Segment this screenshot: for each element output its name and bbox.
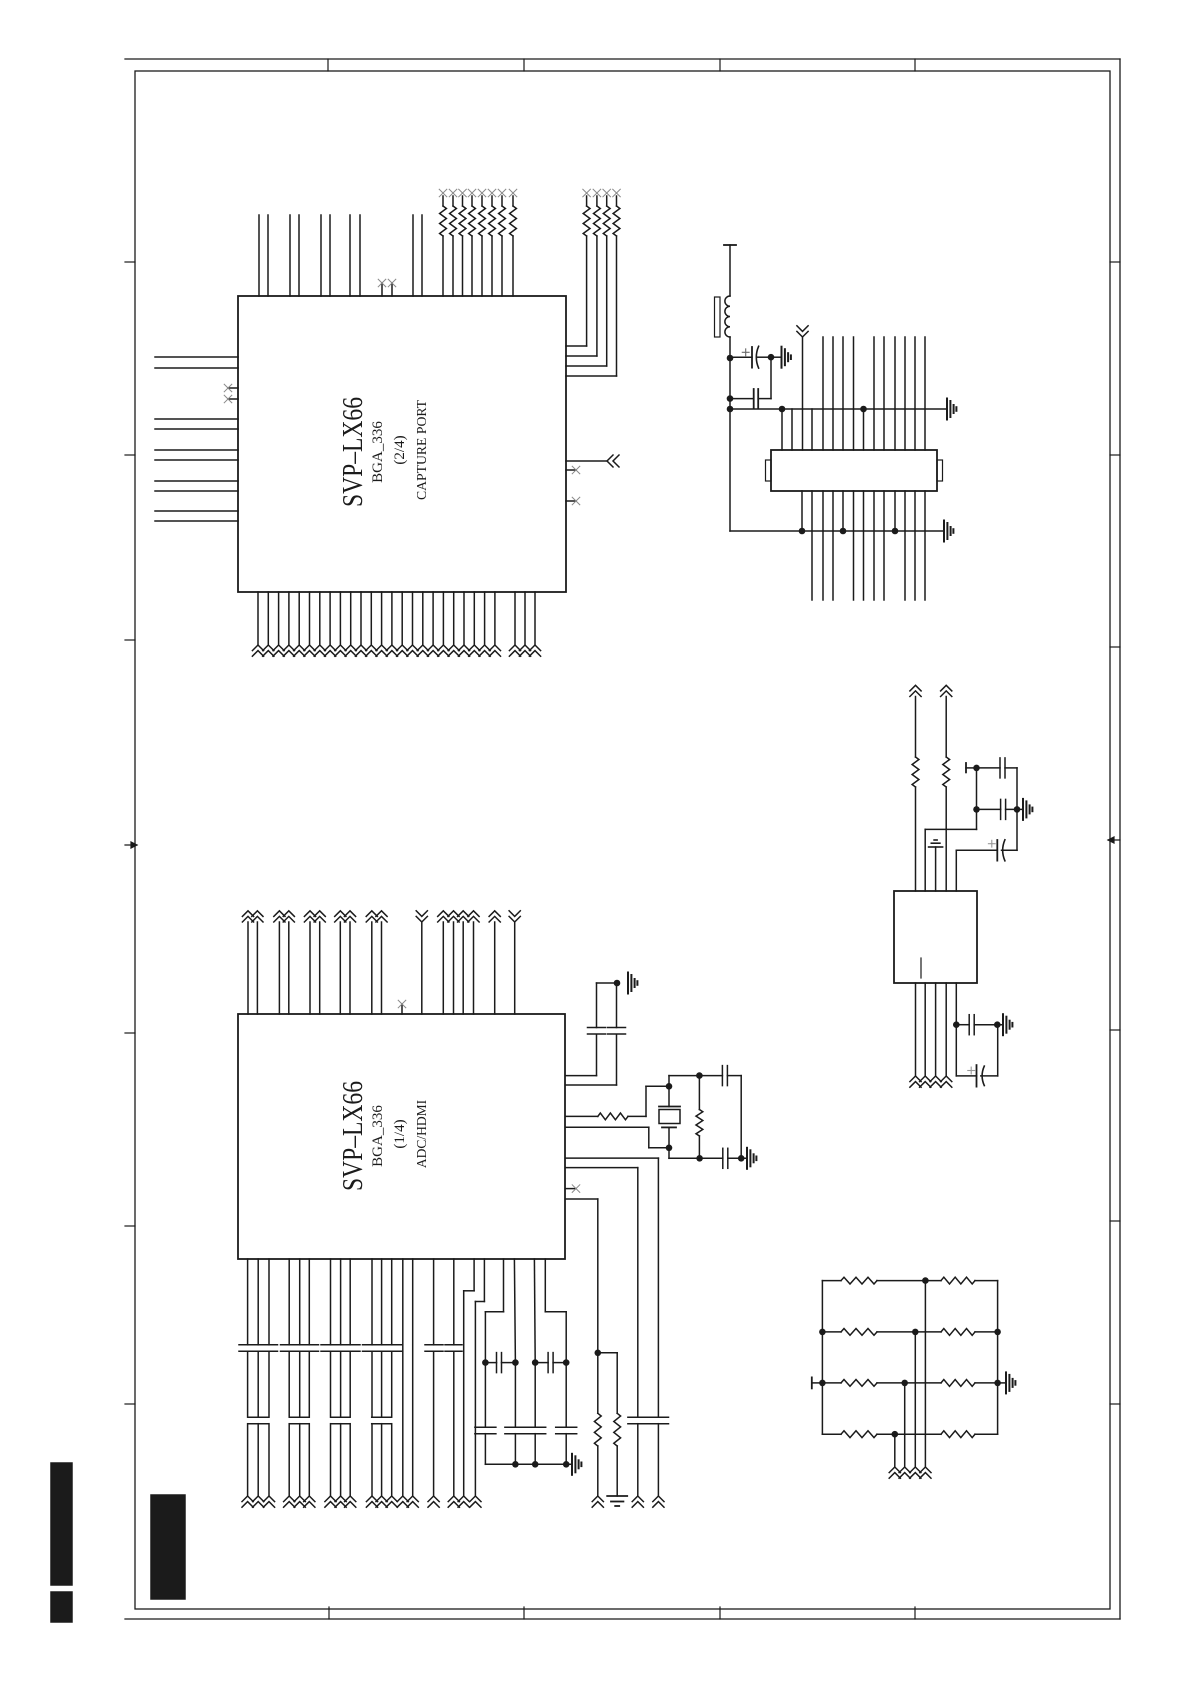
- wire branch to R16: [598, 1352, 617, 1354]
- no-connect X marks above R1-R8: [439, 189, 447, 197]
- wire U2 pin to C4: [566, 1084, 617, 1086]
- junction row4: [892, 1431, 899, 1438]
- resistor R20: [925, 1280, 941, 1282]
- wire bundle U2 top pins: [248, 922, 515, 1014]
- wire U2 pin to C3: [566, 1075, 597, 1077]
- wire col I with jog: [544, 1259, 546, 1312]
- resistor R14 parallel to crystal: [698, 1076, 700, 1110]
- ground G6: [1022, 799, 1024, 820]
- wire R16 to earth: [616, 1446, 618, 1496]
- wire C1/C2 common: [770, 357, 772, 398]
- svg-text:BGA_336: BGA_336: [370, 421, 386, 483]
- wire C4 top to ground node: [616, 983, 618, 1028]
- ground G1b: [781, 347, 783, 368]
- wire col G: [533, 1259, 536, 1363]
- junction ground node: [614, 980, 621, 987]
- junction dots lower bus: [799, 528, 806, 535]
- resistor array R1-R8 on U1 top: [443, 196, 513, 296]
- off-page arrow down into connector net: [797, 331, 808, 337]
- junction C1 right: [768, 354, 775, 361]
- resistor R19: [822, 1280, 841, 1282]
- wire col E with jog: [503, 1259, 505, 1312]
- wire C5 to right leg: [727, 1075, 741, 1077]
- svg-text:CAPTURE PORT: CAPTURE PORT: [414, 399, 429, 500]
- svg-text:(2/4): (2/4): [392, 435, 408, 464]
- ladder left rail: [821, 1281, 823, 1435]
- ground G2: [943, 521, 945, 542]
- wire R15 to off-page: [597, 1446, 599, 1496]
- wire U1 left bus stubs: [155, 357, 238, 521]
- off-page arrows below U3: [910, 1076, 921, 1082]
- resistor R23: [819, 1380, 826, 1387]
- no-connect on U2 top: [401, 1004, 403, 1014]
- ladder right rail: [997, 1281, 999, 1435]
- wire U2 pin routed down col 658: [566, 1157, 658, 1159]
- capacitor C24: [999, 758, 1001, 778]
- off-page arrows above U2 pointing up: [242, 916, 253, 922]
- capacitor C20: [475, 1426, 496, 1428]
- node B bus: [973, 806, 980, 813]
- capacitor C2: [727, 395, 734, 402]
- no-connect stubs U1 left: [228, 387, 238, 389]
- resistor R18: [943, 757, 950, 787]
- off-page arrow left-pointing: [607, 455, 613, 467]
- svg-text:(1/4): (1/4): [392, 1119, 408, 1148]
- wire bundle U1 bottom pins to off-page: [258, 592, 535, 645]
- capacitor C27: [968, 1015, 970, 1035]
- capacitor C8 wide: [649, 1416, 669, 1418]
- resistor R17: [912, 757, 919, 787]
- CN1 left tab: [766, 460, 772, 481]
- svg-text:BGA_336: BGA_336: [370, 1105, 386, 1167]
- centre marker arrow left: [125, 842, 137, 848]
- wire C6 to ground node: [728, 1157, 747, 1159]
- svg-text:SVP–LX66: SVP–LX66: [338, 1081, 369, 1191]
- border zone ticks right: [1110, 262, 1120, 1404]
- capacitor C7 wide: [628, 1416, 649, 1418]
- ground bus lower: [730, 530, 944, 532]
- wire rail left of connector: [729, 337, 731, 531]
- wire C26 to U3 pin: [955, 850, 957, 891]
- wire cap C26 branch: [1016, 809, 1018, 850]
- sheet outer border: [125, 59, 1120, 1619]
- wire C1 to ground: [771, 356, 782, 358]
- capacitor C5: [721, 1066, 723, 1086]
- resistor R26: [895, 1433, 941, 1435]
- off-page arrows feeding U3: [910, 691, 921, 697]
- black rectangle logo area: [151, 1495, 185, 1599]
- off-page arrows below C7 C8: [632, 1496, 643, 1502]
- junction row3: [901, 1380, 908, 1387]
- capacitor C3: [588, 1027, 606, 1029]
- node no-connects on U1 top: [381, 283, 383, 296]
- resistor R21: [819, 1329, 826, 1336]
- ground G3: [627, 973, 629, 994]
- junction row2: [912, 1329, 919, 1336]
- capacitor C21: [505, 1426, 526, 1428]
- ground bus upper: [727, 406, 734, 413]
- ground G1: [946, 399, 948, 420]
- centre marker arrow right: [1108, 837, 1120, 843]
- wire U3 input right: [945, 697, 947, 758]
- junction rail-C1: [727, 355, 734, 362]
- capacitor C4: [608, 1027, 626, 1029]
- capacitor C18: [496, 1353, 498, 1373]
- black bar margin small: [51, 1592, 72, 1622]
- junction R14 top: [696, 1072, 703, 1079]
- resistor R22: [915, 1331, 941, 1333]
- wire C3 top to ground node: [596, 983, 598, 1028]
- wire U2 pin to crystal bottom: [566, 1126, 649, 1128]
- ground G8: [998, 1382, 1006, 1384]
- border zone ticks bottom: [329, 1607, 915, 1619]
- capacitor C26 polarized: [1002, 849, 1018, 851]
- terminal bar row3: [811, 1377, 813, 1388]
- ground G4: [746, 1148, 748, 1169]
- junction R14 bottom: [696, 1155, 703, 1162]
- power terminal bar: [724, 244, 736, 246]
- op-amp U1 body SVP-LX66 (2/4) CAPTURE PORT block: [238, 296, 566, 592]
- junction C27 right: [994, 1021, 1001, 1028]
- wires to lower cap row: [484, 1363, 486, 1428]
- junction bus-pin dots: [779, 406, 786, 413]
- wire node B down to U3 pin: [925, 828, 976, 830]
- resistor R15: [594, 1413, 601, 1446]
- capacitor C22: [525, 1426, 546, 1428]
- regulator U3 body: [894, 891, 977, 983]
- wire col F: [514, 1259, 515, 1363]
- border zone ticks top: [328, 59, 915, 71]
- capacitor row C13-C16: [249, 1416, 269, 1418]
- inductor L1: [725, 296, 730, 337]
- no-connect stubs U1 right: [566, 469, 576, 471]
- junction C6 ground node: [738, 1155, 745, 1162]
- junction dots cap pair row: [482, 1359, 489, 1366]
- wire U2 pin routed down col 638: [566, 1167, 638, 1169]
- resistor R24: [905, 1382, 941, 1384]
- capacitor C6: [722, 1148, 724, 1168]
- wire U3 input left: [915, 697, 917, 758]
- capacitor C23: [556, 1426, 577, 1428]
- wire U1 top pin pairs: [259, 215, 422, 296]
- off-page arrows cols A-D: [428, 1496, 439, 1502]
- wire C24 to corner: [1005, 767, 1017, 769]
- earth above U3: [935, 847, 937, 891]
- resistor R16: [614, 1413, 621, 1446]
- resistor R13: [598, 1113, 628, 1120]
- wire from terminal to inductor: [729, 245, 731, 296]
- wire crystal top to C5: [668, 1076, 670, 1087]
- wire col A: [433, 1259, 435, 1345]
- wire U2 pin to R13: [566, 1115, 598, 1117]
- capacitor row C9-C12 (wide plates): [239, 1344, 278, 1346]
- off-page arrows above U2 pointing down: [416, 916, 427, 922]
- black bar margin tall: [51, 1463, 72, 1585]
- wires below C7 C8 to off-page: [637, 1424, 639, 1496]
- wire crystal bottom bus: [668, 1148, 670, 1159]
- capacitor C25: [1000, 799, 1002, 819]
- wire U1 right off-page: [566, 460, 607, 462]
- junction row1: [922, 1277, 929, 1284]
- op-amp U2 body SVP-LX66 (1/4) ADC/HDMI block: [238, 1014, 565, 1259]
- junction C27 left: [953, 1021, 960, 1028]
- svg-text:ADC/HDMI: ADC/HDMI: [414, 1099, 429, 1168]
- junction crystal bottom: [666, 1145, 673, 1152]
- off-page arrows below U1: [252, 645, 263, 651]
- ground G5: [571, 1454, 573, 1475]
- off-page arrows below U2 groups: [242, 1496, 253, 1502]
- ground earth E1: [607, 1495, 627, 1497]
- wire node A to node B: [976, 768, 978, 830]
- wire U2 pin routed down col 598: [566, 1198, 598, 1200]
- wire col C with jog: [473, 1259, 475, 1291]
- U3 pin1 mark: [920, 958, 922, 978]
- junction crystal top: [666, 1083, 673, 1090]
- capacitor C1 polarized: [730, 356, 752, 358]
- CN1 right tab: [937, 460, 943, 481]
- resistor R25: [822, 1433, 841, 1435]
- junction col598 branch: [595, 1350, 602, 1357]
- wire R13 to crystal top node: [628, 1115, 646, 1117]
- off-page arrows ladder taps: [889, 1467, 900, 1473]
- ferrite core bar beside L1: [715, 297, 721, 337]
- wire col D with jog: [483, 1259, 485, 1302]
- ground G7: [1002, 1014, 1004, 1035]
- off-page arrow R15: [592, 1496, 603, 1502]
- wire bundle below CN1: [802, 491, 925, 600]
- capacitor C19: [547, 1353, 549, 1373]
- wire bundle U3 bottom: [916, 983, 957, 1076]
- capacitor C28 polarized: [976, 1065, 978, 1087]
- connector CN1 body: [771, 450, 937, 491]
- resistor array R9-R12 upper right of U1: [566, 196, 617, 376]
- wire bundle U2 bottom groups: [248, 1259, 413, 1496]
- terminal bar node A: [965, 763, 967, 772]
- no-connect stub U2 right: [566, 1188, 576, 1190]
- no-connect X marks above R9-R12: [583, 189, 591, 197]
- svg-text:SVP–LX66: SVP–LX66: [338, 397, 369, 507]
- wire loop to C28: [955, 1025, 957, 1076]
- sheet inner border: [135, 71, 1110, 1609]
- ladder centre tap wires: [895, 1281, 926, 1467]
- wire node A: [966, 767, 977, 769]
- wire bundle into connector top: [782, 337, 925, 450]
- wire col B: [453, 1259, 455, 1345]
- capacitor C17 wide pair: [425, 1344, 443, 1346]
- crystal X1: [668, 1086, 670, 1106]
- ground bus below caps: [484, 1434, 486, 1465]
- border zone ticks left: [125, 262, 135, 1404]
